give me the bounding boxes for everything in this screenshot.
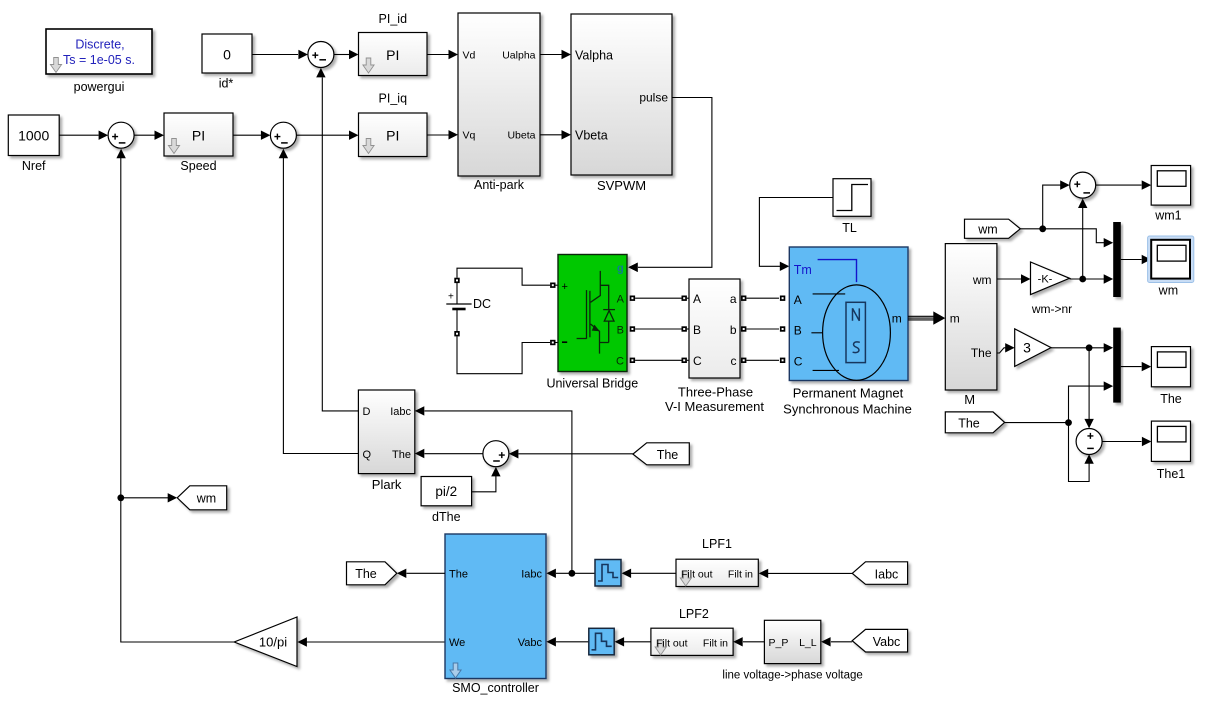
svg-text:PI_iq: PI_iq — [379, 92, 408, 106]
svg-text:The: The — [657, 448, 679, 462]
DC source battery — [446, 278, 491, 337]
svg-text:Vbeta: Vbeta — [575, 129, 608, 143]
svg-text:wm: wm — [972, 273, 992, 287]
svg-text:PI: PI — [386, 127, 399, 143]
wire SMO We to 10/pi — [307, 641, 446, 643]
from tag wm (above M) — [965, 219, 1021, 238]
svg-text:Ualpha: Ualpha — [502, 50, 535, 62]
svg-text:Speed: Speed — [180, 159, 216, 173]
svg-text:Q: Q — [363, 449, 372, 461]
filter LPF1 — [676, 537, 758, 587]
bus m to M — [908, 311, 945, 324]
wire pulse to bridge g — [638, 98, 712, 268]
svg-text:Vd: Vd — [463, 50, 476, 62]
wire wm tag to sum_wm1 and mux1 — [1020, 229, 1104, 243]
wire M wm to gain -K- — [997, 278, 1021, 280]
sum junction speed — [108, 122, 134, 148]
subsystem SVPWM — [571, 14, 672, 193]
svg-text:DC: DC — [473, 297, 491, 311]
svg-text:The: The — [355, 567, 377, 581]
svg-text:Anti-park: Anti-park — [474, 178, 525, 192]
subsystem Anti-park — [458, 13, 540, 192]
bridge g arrowhead — [628, 263, 638, 272]
wire PI_id to Anti-park Vd — [427, 54, 449, 56]
mux2 — [1113, 328, 1121, 403]
junction dot — [1039, 225, 1046, 232]
svg-text:c: c — [731, 354, 737, 368]
svg-text:powergui: powergui — [74, 80, 125, 94]
wire The tag to sum_dThe — [519, 453, 633, 455]
wire sum_dThe to Plark The — [425, 453, 483, 455]
svg-text:pi/2: pi/2 — [435, 484, 457, 499]
svg-text:Vq: Vq — [463, 130, 476, 142]
svg-text:SVPWM: SVPWM — [597, 178, 646, 193]
svg-text:P_P: P_P — [769, 637, 789, 649]
observer SMO_controller — [445, 534, 546, 695]
wire gain -K- to mux1 and sum_wm1 — [1070, 278, 1105, 280]
svg-text:LPF1: LPF1 — [702, 537, 732, 551]
PI controller PI_id — [359, 12, 428, 76]
svg-text:b: b — [730, 323, 737, 337]
wire Nref to sum_speed — [59, 134, 98, 136]
wire speed feedback (10/pi output up to sum_speed, branch to wm goto) — [121, 158, 234, 642]
svg-text:dThe: dThe — [432, 510, 461, 524]
wire meas a to PMSM A — [746, 297, 779, 299]
svg-text:Valpha: Valpha — [575, 49, 613, 63]
svg-text:m: m — [950, 312, 960, 326]
sum junction wm1 — [1070, 172, 1096, 198]
wire gain3 to mux2 and sum_The1 — [1051, 347, 1104, 349]
svg-text:SMO_controller: SMO_controller — [452, 681, 539, 695]
constant id* — [202, 34, 252, 91]
PI controller Speed — [164, 113, 233, 173]
svg-text:A: A — [617, 294, 625, 306]
machine Permanent Magnet Synchronous Machine — [783, 247, 912, 417]
wire LPF2 to filter2 — [624, 641, 651, 643]
svg-text:+: + — [448, 292, 454, 303]
wire M The to gain 3 (with jog) — [997, 348, 1006, 353]
gain wm->nr — [1031, 262, 1073, 316]
converter Universal Bridge — [546, 255, 638, 391]
svg-text:10/pi: 10/pi — [259, 634, 287, 649]
wire The tag to mux2 and sum_The1 — [1005, 422, 1069, 424]
svg-text:Filt in: Filt in — [728, 569, 753, 581]
svg-text:Tm: Tm — [794, 263, 812, 277]
svg-text:Filt out: Filt out — [681, 569, 713, 581]
wire P_P block to LPF2 — [743, 641, 764, 643]
gain 3 — [1015, 329, 1051, 367]
wire meas b to PMSM B — [746, 328, 779, 330]
svg-text:Permanent Magnet: Permanent Magnet — [793, 386, 904, 401]
filter LPF2 — [651, 607, 733, 655]
wire bridge A to meas A — [635, 297, 681, 299]
svg-text:Vabc: Vabc — [873, 635, 901, 649]
svg-text:id*: id* — [219, 77, 234, 91]
svg-text:PI: PI — [192, 127, 205, 143]
svg-text:wm->nr: wm->nr — [1031, 302, 1072, 316]
wire TL to PMSM Tm — [759, 198, 833, 267]
svg-text:B: B — [794, 324, 802, 338]
wire Vabc tag to P_P block — [831, 641, 852, 643]
wire mux2 to scope The — [1121, 366, 1142, 368]
filter block 1 (rate transition) — [595, 560, 621, 587]
from tag The (below M) — [945, 412, 1004, 433]
wire PI_iq to Anti-park Vq — [427, 134, 449, 136]
svg-text:C: C — [794, 355, 803, 369]
svg-text:Vabc: Vabc — [518, 637, 543, 649]
svg-text:TL: TL — [842, 221, 857, 235]
svg-text:L_L: L_L — [799, 637, 817, 649]
wire sum_The1 to scope The1 — [1102, 441, 1141, 443]
PI controller PI_iq — [359, 92, 428, 157]
svg-text:A: A — [693, 292, 701, 306]
sum junction id current — [308, 42, 334, 68]
wire sum_speed to Speed PI — [134, 134, 154, 136]
filter block 2 (rate transition) — [589, 628, 614, 655]
from tag Vabc — [852, 629, 907, 652]
svg-text:+: + — [562, 281, 568, 293]
wire pi/2 to sum_dThe — [472, 476, 496, 492]
svg-text:PI_id: PI_id — [379, 12, 408, 26]
svg-text:a: a — [730, 292, 737, 306]
svg-text:pulse: pulse — [639, 91, 668, 105]
svg-text:Iabc: Iabc — [521, 569, 542, 581]
svg-text:Filt out: Filt out — [656, 637, 688, 649]
svg-text:g: g — [617, 263, 624, 275]
from tag The (near dThe) — [633, 443, 689, 465]
meter Three-Phase V-I Measurement — [665, 279, 764, 414]
svg-text:C: C — [693, 354, 702, 368]
wire bridge C to meas C — [635, 359, 681, 361]
svg-text:wm: wm — [1158, 284, 1178, 298]
wire filter2 to SMO Vabc — [556, 641, 589, 643]
svg-text:We: We — [449, 637, 465, 649]
wire Plark D feedback to sum_id — [322, 78, 358, 411]
svg-text:Ts = 1e-05 s.: Ts = 1e-05 s. — [63, 53, 135, 67]
wire LPF1 to filter1 — [631, 572, 676, 574]
svg-text:1000: 1000 — [18, 127, 49, 143]
svg-text:Iabc: Iabc — [875, 567, 899, 581]
svg-text:wm: wm — [977, 223, 997, 237]
svg-text:B: B — [693, 323, 701, 337]
svg-text:Ubeta: Ubeta — [507, 130, 535, 142]
scope wm1 — [1151, 166, 1190, 223]
svg-text:wm: wm — [196, 492, 216, 506]
wire Iabc junction (filter1 to SMO Iabc and up to Plark) — [556, 572, 595, 574]
wire sum_wm1 to scope wm1 — [1096, 184, 1142, 186]
svg-text:Discrete,: Discrete, — [75, 38, 124, 52]
gain 10/pi — [234, 617, 297, 667]
svg-text:A: A — [794, 293, 802, 307]
Plark input arrows — [415, 406, 425, 415]
scope The — [1151, 347, 1190, 406]
powergui block — [46, 29, 152, 94]
scope wm (selected) — [1148, 236, 1194, 298]
svg-text:The: The — [1160, 392, 1182, 406]
step source TL — [833, 179, 871, 235]
goto tag wm (left) — [177, 486, 227, 510]
bridge IGBT-diode icon — [577, 271, 615, 354]
constant pi/2 — [421, 477, 472, 525]
svg-text:D: D — [363, 406, 371, 418]
converter line voltage to phase voltage — [722, 620, 862, 681]
wire DC- to bridge - — [457, 336, 550, 374]
constant Nref — [8, 115, 59, 173]
wire mux1 to scope wm — [1121, 259, 1142, 261]
svg-text:The1: The1 — [1157, 467, 1186, 481]
svg-text:Synchronous Machine: Synchronous Machine — [783, 402, 912, 417]
svg-text:Filt in: Filt in — [703, 637, 728, 649]
wire Iabc tag to LPF1 — [768, 572, 852, 574]
sum junction dThe — [483, 441, 509, 467]
svg-text:The: The — [392, 449, 411, 461]
svg-text:Three-Phase: Three-Phase — [678, 385, 753, 400]
svg-text:0: 0 — [223, 47, 231, 63]
sum junction The1 — [1076, 429, 1102, 455]
scope The1 — [1151, 421, 1190, 481]
demux subsystem M — [945, 244, 997, 407]
wire Plark Q feedback to sum_iq — [283, 158, 358, 454]
svg-text:Universal Bridge: Universal Bridge — [546, 377, 638, 391]
svg-text:3: 3 — [1023, 340, 1031, 356]
svg-text:line voltage->phase voltage: line voltage->phase voltage — [722, 670, 862, 682]
wire Ualpha to Valpha — [540, 54, 562, 56]
wire Speed PI to sum_iq — [233, 134, 261, 136]
subsystem Plark — [358, 390, 414, 492]
svg-text:B: B — [617, 325, 624, 337]
goto tag The (left of SMO) — [347, 562, 397, 585]
svg-text:-K-: -K- — [1038, 274, 1053, 286]
svg-text:Plark: Plark — [372, 477, 402, 492]
wire id* to sum_id — [252, 54, 298, 56]
wire meas c to PMSM C — [746, 359, 779, 361]
mux1 — [1113, 222, 1121, 297]
svg-text:Iabc: Iabc — [390, 406, 411, 418]
svg-text:M: M — [964, 392, 975, 407]
svg-text:V-I Measurement: V-I Measurement — [665, 399, 764, 414]
svg-text:The: The — [449, 569, 468, 581]
wire Ubeta to Vbeta — [540, 134, 562, 136]
svg-text:wm1: wm1 — [1154, 209, 1181, 223]
from tag Iabc — [852, 562, 907, 585]
svg-text:C: C — [616, 356, 624, 368]
svg-text:m: m — [892, 312, 902, 326]
wire bridge B to meas B — [635, 328, 681, 330]
svg-text:The: The — [958, 416, 980, 430]
wire SMO The to goto The — [407, 572, 446, 574]
wire DC+ to bridge + — [457, 268, 550, 285]
sum junction iq current — [270, 122, 296, 148]
wire sum_iq to PI_iq — [296, 134, 349, 136]
svg-text:LPF2: LPF2 — [679, 607, 709, 621]
wire sum_id to PI_id — [334, 54, 349, 56]
svg-text:The: The — [971, 346, 992, 360]
svg-text:Nref: Nref — [22, 159, 46, 173]
svg-text:PI: PI — [386, 47, 399, 63]
